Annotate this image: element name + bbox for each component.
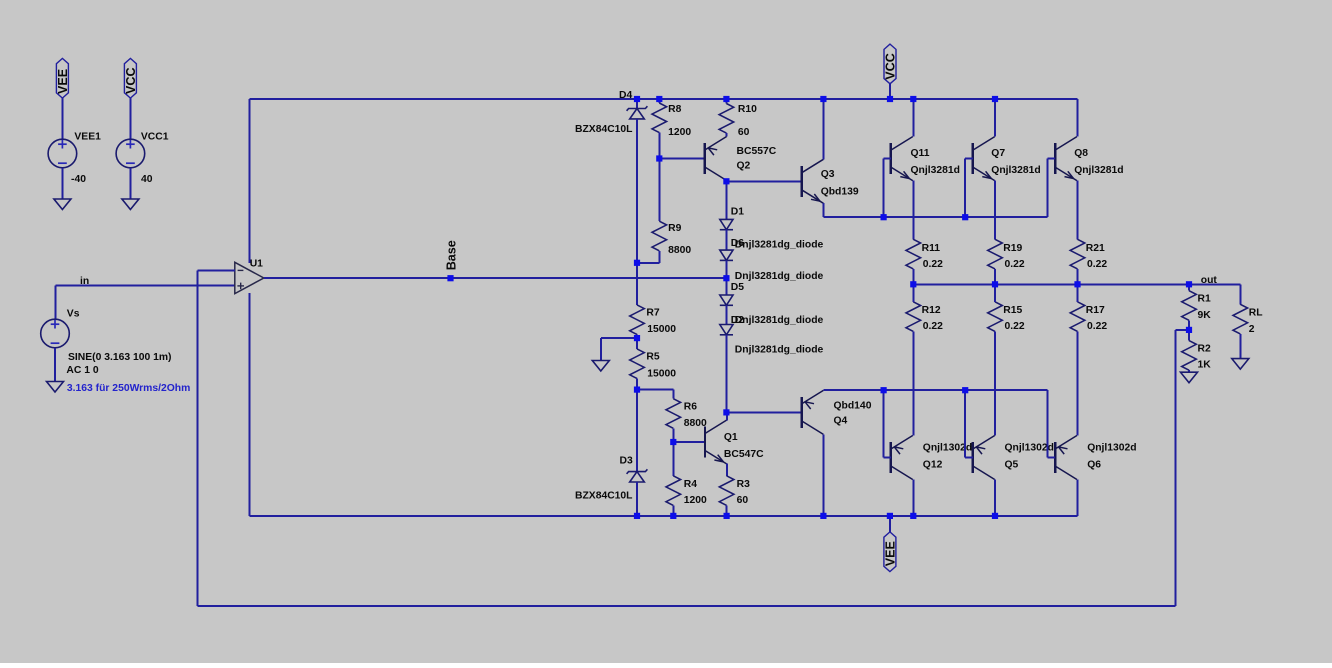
zener diode D3 BZX84C10L <box>627 469 648 474</box>
svg-text:BC547C: BC547C <box>724 449 764 460</box>
wire Q3 emitter lead down <box>822 203 824 217</box>
wire bottom VEE rail <box>250 515 1078 517</box>
junction R3 bottom rail <box>724 513 730 519</box>
junction Q11 base drive rail <box>881 214 887 220</box>
wire R5 node to R6 <box>637 389 673 391</box>
svg-text:R19: R19 <box>1003 243 1022 254</box>
resistor R5 15000 <box>630 349 645 379</box>
wire feedback right vertical <box>1174 330 1176 606</box>
svg-text:60: 60 <box>737 495 749 506</box>
svg-text:R7: R7 <box>646 308 659 319</box>
junction D4 top rail <box>634 96 640 102</box>
junction R1/R2 feedback node <box>1186 327 1192 333</box>
wire Q2 collector to D1 <box>725 181 727 219</box>
junction Q1 collector/Q4 base <box>723 409 729 415</box>
voltage source VEE1 <box>48 139 77 168</box>
svg-text:R12: R12 <box>922 305 941 316</box>
wire Q11 base down to drive rail <box>883 159 885 218</box>
wire R8 bottom to base node <box>658 133 660 159</box>
junction R21 out rail <box>1074 281 1080 287</box>
wire feedback bottom horizontal <box>197 605 1175 607</box>
wire R2 bottom to ground <box>1188 370 1190 372</box>
wire Q5 base up to drive rail <box>964 390 966 457</box>
junction VCC flag rail <box>887 96 893 102</box>
svg-text:out: out <box>1201 275 1218 286</box>
svg-text:Dnjl3281dg_diode: Dnjl3281dg_diode <box>735 240 824 251</box>
wire R9 bottom lead <box>658 251 660 263</box>
wire feedback to R1/R2 node <box>1175 329 1189 331</box>
wire out rail <box>913 283 1240 285</box>
svg-text:Q2: Q2 <box>737 161 751 172</box>
svg-text:0.22: 0.22 <box>923 259 943 270</box>
ground below RL <box>1232 359 1249 370</box>
svg-text:3.163 für 250Wrms/2Ohm: 3.163 für 250Wrms/2Ohm <box>67 383 190 394</box>
wire R4 bottom to rail <box>672 505 674 516</box>
svg-text:Base: Base <box>445 240 459 270</box>
svg-text:Qbd140: Qbd140 <box>834 401 872 412</box>
junction Q5 base drive rail <box>962 387 968 393</box>
ground below R2 <box>1181 372 1198 383</box>
svg-text:1200: 1200 <box>684 495 707 506</box>
wire R9 jog to D4 column <box>637 262 659 264</box>
svg-text:D4: D4 <box>619 90 632 101</box>
ground at R7/R5 tap <box>592 361 609 372</box>
wire R15 top lead <box>994 284 996 302</box>
wire Q12 collector to bottom rail <box>912 480 914 516</box>
svg-text:BZX84C10L: BZX84C10L <box>575 124 633 135</box>
svg-text:D5: D5 <box>731 282 744 293</box>
junction Base/diode chain <box>723 275 729 281</box>
svg-text:15000: 15000 <box>647 368 676 379</box>
svg-text:Q11: Q11 <box>911 148 930 159</box>
voltage source VCC1 <box>116 139 145 168</box>
svg-text:Q12: Q12 <box>923 459 943 470</box>
ground below VEE1 <box>54 199 71 210</box>
wire Base node to D5 <box>725 278 727 295</box>
junction R19 out rail <box>992 281 998 287</box>
op-amp U1 plus input mark <box>237 285 244 287</box>
svg-text:Qnjl3281d: Qnjl3281d <box>911 165 960 176</box>
ground below Vs <box>47 382 64 393</box>
ground below VCC1 <box>122 199 139 210</box>
junction Q4 collector bottom rail <box>820 513 826 519</box>
wire Q8 base stub <box>1048 158 1056 160</box>
wire VCC flag stem <box>889 84 891 99</box>
wire Q8 emitter down to R <box>1077 181 1079 240</box>
svg-text:1K: 1K <box>1198 360 1212 371</box>
svg-text:R8: R8 <box>668 104 681 115</box>
svg-text:VEE: VEE <box>884 541 898 566</box>
svg-text:Qnjl3281d: Qnjl3281d <box>991 165 1040 176</box>
svg-text:9K: 9K <box>1198 310 1212 321</box>
junction Q7 collector top rail <box>992 96 998 102</box>
transistor Q2 BC557C (pnp) <box>705 137 727 181</box>
resistor RL 2 <box>1233 304 1248 334</box>
resistor R11 0.22 <box>906 239 921 269</box>
wire D3 anode to bottom rail <box>636 482 638 516</box>
wire R10 to Q2 emitter <box>725 133 727 136</box>
svg-text:R3: R3 <box>737 479 750 490</box>
svg-text:U1: U1 <box>250 259 263 270</box>
svg-text:40: 40 <box>141 174 153 185</box>
resistor R8 1200 <box>652 103 667 133</box>
junction R5/R6/D3 node <box>634 387 640 393</box>
wire Q5 collector to bottom rail <box>994 480 996 516</box>
wire Q4 collector down to rail <box>822 435 824 516</box>
svg-text:R4: R4 <box>684 479 697 490</box>
wire npn base drive rail <box>823 216 1047 218</box>
resistor R19 0.22 <box>988 239 1003 269</box>
svg-text:60: 60 <box>738 127 750 138</box>
transistor Q6 Qnjl1302d (pnp) <box>1055 436 1077 480</box>
svg-text:0.22: 0.22 <box>1087 259 1107 270</box>
wire Q7 base down to drive rail <box>964 159 966 218</box>
diode D1 Dnjl3281dg_diode triangle <box>720 219 733 229</box>
wire op-amp V- to bottom rail <box>249 293 251 516</box>
wire Q7 emitter down to R <box>994 181 996 240</box>
svg-text:Q4: Q4 <box>834 416 848 427</box>
svg-text:0.22: 0.22 <box>1005 259 1025 270</box>
svg-text:15000: 15000 <box>647 324 676 335</box>
svg-text:RL: RL <box>1249 307 1263 318</box>
wire Q11 collector to top rail <box>912 99 914 137</box>
wire base node to Q2 <box>659 158 705 160</box>
wire op-amp V+ to top rail <box>249 99 251 263</box>
wire R6 bottom to Q1 base node <box>672 428 674 442</box>
transistor Q5 Qnjl1302d (pnp) <box>973 436 995 480</box>
svg-text:AC 1 0: AC 1 0 <box>66 365 98 376</box>
net flag VEE (supply) <box>56 58 68 98</box>
wire Q1 emitter to R3 <box>726 464 728 476</box>
junction R10 top rail <box>723 96 729 102</box>
wire R17 bottom to pnp emitter <box>1077 331 1079 435</box>
transistor Q3 Qbd139 (npn) <box>802 159 824 203</box>
net flag VCC (top rail) <box>884 44 896 84</box>
wire Q7 base stub <box>965 158 973 160</box>
wire op-amp output to Base to diode chain <box>264 277 727 279</box>
svg-text:2: 2 <box>1249 324 1255 335</box>
wire ground tap horizontal <box>601 337 637 339</box>
wire Q2 collector to Q3 base <box>726 180 801 182</box>
junction D3 bottom rail <box>634 513 640 519</box>
wire VEE flag stem <box>889 516 891 532</box>
wire D5 to D2 <box>725 305 727 324</box>
wire top VCC rail <box>250 98 1078 100</box>
junction R4 bottom rail <box>670 513 676 519</box>
junction R8/R9/Q2 base <box>656 155 662 161</box>
svg-text:R15: R15 <box>1003 305 1022 316</box>
resistor R12 0.22 <box>906 302 921 332</box>
voltage source Vs <box>41 319 70 348</box>
net flag VCC (supply) <box>124 58 136 98</box>
wire Q8 collector to top rail <box>1077 99 1079 137</box>
wire Q6 collector to bottom rail <box>1077 480 1079 516</box>
resistor R3 60 <box>719 476 734 506</box>
junction R8 top rail <box>656 96 662 102</box>
resistor R4 1200 <box>666 476 681 506</box>
wire R21 bottom to out rail <box>1077 269 1079 284</box>
wire R4 top lead <box>672 442 674 476</box>
wire minus input <box>197 269 235 271</box>
svg-text:R5: R5 <box>646 352 659 363</box>
diode D2 Dnjl3281dg_diode triangle <box>720 325 733 335</box>
transistor Q4 Qbd140 (pnp) <box>802 390 824 434</box>
transistor Q8 Qnjl3281d (npn) <box>1055 137 1077 181</box>
junction Q12 collector bottom rail <box>910 513 916 519</box>
wire out corner down to RL <box>1239 284 1241 304</box>
svg-text:SINE(0 3.163 100 1m): SINE(0 3.163 100 1m) <box>68 352 172 363</box>
wire Q11 base stub <box>884 158 891 160</box>
wire in horizontal <box>56 285 235 287</box>
svg-text:Qnjl3281d: Qnjl3281d <box>1074 165 1123 176</box>
junction R6/R4/Q1 base <box>670 439 676 445</box>
wire in corner down to Vs <box>55 286 57 320</box>
wire R1 bottom to R2 node <box>1188 320 1190 340</box>
svg-text:D6: D6 <box>731 238 744 249</box>
svg-text:Q7: Q7 <box>991 148 1005 159</box>
resistor R10 60 <box>719 104 734 134</box>
diode D6 Dnjl3281dg_diode triangle <box>720 250 733 260</box>
svg-text:8800: 8800 <box>684 418 707 429</box>
resistor R6 8800 <box>666 399 681 429</box>
svg-text:Dnjl3281dg_diode: Dnjl3281dg_diode <box>735 345 824 356</box>
svg-text:0.22: 0.22 <box>1005 321 1025 332</box>
svg-text:BC557C: BC557C <box>737 146 777 157</box>
wire R11 bottom to out rail <box>912 269 914 284</box>
wire R8 top lead <box>658 99 660 103</box>
svg-text:0.22: 0.22 <box>923 321 943 332</box>
node Base junction <box>447 275 453 281</box>
wire diode node to Q4 base <box>726 411 801 413</box>
wire R5 bottom to D3 node <box>636 379 638 472</box>
wire pnp base drive rail <box>823 389 1047 391</box>
wire Q7 collector to top rail <box>994 99 996 137</box>
net flag VEE (bottom rail) <box>884 532 896 572</box>
wire Q12 base up to drive rail <box>883 390 885 457</box>
svg-text:Qnjl1302d: Qnjl1302d <box>1087 443 1136 454</box>
wire Q6 base stub <box>1048 457 1056 459</box>
svg-text:0.22: 0.22 <box>1087 321 1107 332</box>
wire Vs- to ground <box>54 348 56 382</box>
resistor R9 8800 <box>652 221 667 251</box>
resistor R2 1K <box>1182 341 1197 371</box>
wire D4 cathode lead <box>636 99 638 109</box>
wire RL bottom to ground <box>1239 334 1241 359</box>
wire base node to Q1 <box>673 441 705 443</box>
resistor R17 0.22 <box>1070 302 1085 332</box>
op-amp U1 triangle <box>235 262 264 293</box>
svg-text:1200: 1200 <box>668 127 691 138</box>
junction Q11 collector top rail <box>910 96 916 102</box>
svg-text:VCC: VCC <box>124 67 138 94</box>
svg-text:R11: R11 <box>922 243 941 254</box>
svg-text:Qbd139: Qbd139 <box>821 186 859 197</box>
svg-text:Dnjl3281dg_diode: Dnjl3281dg_diode <box>735 271 824 282</box>
svg-text:R21: R21 <box>1086 243 1105 254</box>
resistor R7 15000 <box>630 305 645 335</box>
wire D6 to Base node <box>725 260 727 278</box>
svg-text:Q3: Q3 <box>821 169 835 180</box>
transistor Q1 BC547C (npn) <box>705 420 727 464</box>
wire R9 top lead <box>658 159 660 222</box>
junction R11 out rail <box>910 281 916 287</box>
svg-text:-40: -40 <box>71 174 86 185</box>
junction out node <box>1186 281 1192 287</box>
svg-text:VCC1: VCC1 <box>141 132 169 143</box>
wire Q11 emitter down to R <box>912 181 914 240</box>
svg-text:R2: R2 <box>1198 344 1211 355</box>
zener diode D4 BZX84C10L <box>627 106 648 111</box>
wire Q6 base up to drive rail <box>1047 390 1049 457</box>
wire VCC flag to VCC1+ <box>129 98 131 139</box>
junction Q12 base drive rail <box>881 387 887 393</box>
svg-text:VEE: VEE <box>56 69 70 94</box>
wire R10 top lead <box>725 99 727 104</box>
svg-text:R6: R6 <box>684 402 697 413</box>
svg-text:R10: R10 <box>738 104 757 115</box>
svg-text:8800: 8800 <box>668 245 691 256</box>
wire R19 bottom to out rail <box>994 269 996 284</box>
wire Q1 collector lead up <box>726 412 728 420</box>
wire D2 to Q1 collector node <box>725 335 727 413</box>
wire R12 top lead <box>912 284 914 302</box>
junction R7/R5 ground tap <box>634 335 640 341</box>
wire D4 anode down to R7 <box>636 119 638 305</box>
wire ground tap vertical <box>600 338 602 360</box>
svg-text:R9: R9 <box>668 223 681 234</box>
wire VEE flag to VEE1+ <box>61 98 63 139</box>
wire R12 bottom to pnp emitter <box>912 331 914 435</box>
svg-text:Dnjl3281dg_diode: Dnjl3281dg_diode <box>735 315 824 326</box>
junction Q5 collector bottom rail <box>992 513 998 519</box>
transistor Q12 Qnjl1302d (pnp) <box>891 436 913 480</box>
junction Q2 collector node <box>723 178 729 184</box>
svg-text:D1: D1 <box>731 206 744 217</box>
transistor Q7 Qnjl3281d (npn) <box>973 137 995 181</box>
wire R3 bottom to rail <box>726 505 728 516</box>
wire R7 bottom to R5 top <box>636 335 638 349</box>
wire R15 bottom to pnp emitter <box>994 331 996 435</box>
junction R9 jog node <box>634 260 640 266</box>
resistor R1 9K <box>1182 291 1197 321</box>
junction Q7 base drive rail <box>962 214 968 220</box>
op-amp U1 minus input mark <box>238 269 244 271</box>
svg-text:R1: R1 <box>1198 294 1211 305</box>
wire Q8 base down to drive rail <box>1047 159 1049 218</box>
wire R17 top lead <box>1077 284 1079 302</box>
resistor R15 0.22 <box>988 302 1003 332</box>
transistor Q11 Qnjl3281d (npn) <box>891 137 913 181</box>
wire R6 top lead <box>672 390 674 399</box>
svg-text:VEE1: VEE1 <box>74 132 101 143</box>
svg-text:Q5: Q5 <box>1005 459 1019 470</box>
svg-text:Q6: Q6 <box>1087 459 1101 470</box>
wire feedback left vertical <box>196 270 198 606</box>
svg-text:Q1: Q1 <box>724 432 738 443</box>
svg-text:D2: D2 <box>731 315 744 326</box>
wire VCC1- to ground <box>129 168 131 199</box>
svg-text:R17: R17 <box>1086 305 1105 316</box>
wire Q3 collector to top rail <box>822 99 824 160</box>
resistor R21 0.22 <box>1070 239 1085 269</box>
svg-text:Vs: Vs <box>67 309 80 320</box>
wire D1 to D6 <box>725 230 727 250</box>
svg-text:BZX84C10L: BZX84C10L <box>575 491 633 502</box>
svg-text:Q8: Q8 <box>1074 148 1088 159</box>
wire VEE1- to ground <box>61 168 63 199</box>
junction VEE flag rail <box>887 513 893 519</box>
wire Q12 base stub <box>884 457 891 459</box>
svg-text:D3: D3 <box>620 456 633 467</box>
wire Q5 base stub <box>965 457 973 459</box>
diode D5 Dnjl3281dg_diode triangle <box>720 295 733 305</box>
junction Q3 collector rail <box>820 96 826 102</box>
svg-text:VCC: VCC <box>884 53 898 80</box>
wire out to R1 <box>1188 284 1190 290</box>
